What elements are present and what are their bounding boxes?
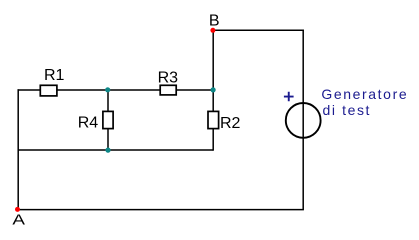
- svg-text:di test: di test: [323, 102, 372, 118]
- wire top horizontal from B: [213, 29, 304, 31]
- node B red dot: [210, 28, 215, 33]
- resistor R3: [160, 85, 176, 95]
- svg-text:A: A: [12, 212, 25, 229]
- resistor R4: [103, 111, 113, 128]
- wire left vertical: [17, 89, 19, 209]
- node A red dot: [15, 207, 20, 212]
- wire bottom horizontal: [18, 209, 304, 211]
- wire R4 top lead: [107, 90, 109, 111]
- svg-text:R4: R4: [78, 115, 99, 132]
- wire R2 top lead: [212, 90, 214, 111]
- wire R4 bottom lead: [107, 129, 109, 150]
- wire between R3 and node at R2 column: [177, 89, 214, 91]
- svg-text:R3: R3: [158, 70, 179, 87]
- resistor R1: [40, 85, 57, 96]
- wire middle horizontal: [18, 149, 213, 151]
- wire R2 bottom lead: [212, 129, 214, 151]
- svg-text:Generatore: Generatore: [321, 86, 408, 102]
- wire top row left lead of R1: [18, 89, 41, 91]
- resistor R2: [208, 111, 219, 128]
- wire B vertical down to top row: [212, 30, 214, 90]
- node junction teal dot right: [211, 87, 216, 92]
- svg-text:R1: R1: [44, 67, 65, 84]
- op: generator circle U1: [286, 103, 321, 138]
- wire right vertical through generator: [302, 30, 304, 210]
- svg-text:B: B: [209, 13, 220, 30]
- plus sign of generator: [284, 92, 294, 102]
- node junction teal dot left: [105, 87, 110, 92]
- svg-text:R2: R2: [220, 115, 241, 132]
- wire between R1 and R3: [58, 89, 160, 91]
- node junction teal dot bottom: [105, 148, 110, 153]
